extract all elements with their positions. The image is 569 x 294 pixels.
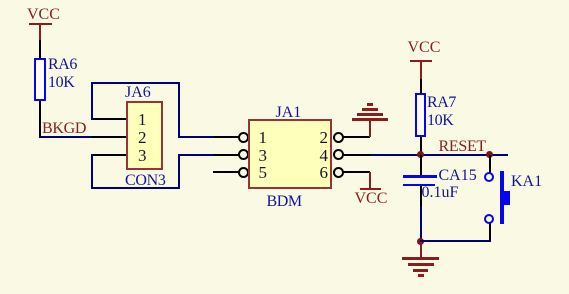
wire CA15 to ground node — [420, 206, 422, 242]
label JA6 — [125, 85, 151, 101]
pin number 1 (JA6) — [138, 111, 147, 128]
pin stub JA1 pin2 — [343, 136, 370, 138]
wire bottom horizontal to KA1 — [420, 240, 491, 242]
pin stub JA1 pin6 — [343, 171, 370, 173]
wire CA15 lower pin — [420, 186, 422, 206]
pin number 2 (JA1) — [320, 129, 329, 146]
pin number 5 (JA1) — [259, 164, 268, 181]
wire loop right vertical up — [178, 154, 180, 190]
label 10K — [48, 75, 74, 91]
wire RESET to CA15 — [420, 155, 422, 176]
pin number 1 (JA1) — [259, 129, 268, 146]
ground symbol (earth, bottom) — [420, 242, 422, 258]
pin number 6 (JA1) — [320, 164, 329, 181]
power symbol VCC (left) — [27, 7, 60, 23]
wire KA1 bottom — [489, 223, 491, 241]
wire loop top horizontal — [91, 82, 180, 84]
pin stub JA1 pin1 — [214, 136, 239, 138]
connector JA6 — [126, 101, 163, 170]
pin stub JA6 pin2 — [92, 136, 127, 138]
net label BKGD — [42, 121, 86, 137]
capacitor CA15 — [403, 175, 437, 178]
net label RESET — [439, 139, 486, 155]
pin circle JA1 pin5 — [238, 167, 249, 178]
pin stub JA1 pin4 — [343, 154, 372, 156]
pin number 3 (JA6) — [138, 147, 147, 164]
wire JA6 pin1 loop up — [91, 83, 93, 120]
wire VCC to RA7 — [420, 79, 422, 93]
pin stub JA6 pin1 — [92, 118, 127, 120]
junction ground node — [417, 238, 424, 245]
pin number 3 (JA1) — [259, 147, 268, 164]
pin circle JA1 pin4 — [333, 149, 344, 160]
resistor RA7 — [415, 93, 426, 137]
connector JA1 (BDM header) — [248, 119, 332, 189]
wire RA6 to BKGD node — [39, 101, 41, 137]
switch KA1 (push button) — [484, 172, 494, 182]
pin circle JA1 pin1 — [238, 132, 249, 143]
wire VCC to RA6 — [39, 40, 41, 58]
pin stub JA1 pin3 — [214, 154, 239, 156]
pin stub JA6 pin3 — [92, 154, 127, 156]
wire loop bottom horizontal — [91, 187, 180, 189]
wire RA7 to RESET node — [420, 137, 422, 155]
power symbol VCC (right) — [408, 40, 441, 56]
label BDM — [267, 194, 302, 210]
pin circle JA1 pin6 — [333, 167, 344, 178]
pin circle JA1 pin2 — [333, 132, 344, 143]
label CON3 — [125, 173, 166, 189]
wire to JA1 pin3 — [178, 154, 215, 156]
wire JA6 pin3 loop down — [91, 154, 93, 190]
pin circle JA1 pin3 — [238, 149, 249, 160]
pin number 4 (JA1) — [320, 147, 329, 164]
wire to JA1 pin1 — [178, 136, 215, 138]
wire BKGD horizontal — [39, 136, 93, 138]
pin number 2 (JA6) — [138, 129, 147, 146]
label RA7 — [427, 95, 456, 111]
junction RESET/RA7 — [417, 151, 424, 158]
label RA6 — [48, 57, 77, 73]
junction RESET/KA1 — [486, 151, 493, 158]
wire RESET to KA1 top — [489, 155, 491, 173]
pin stub JA1 pin5 — [213, 171, 239, 173]
ground symbol (earth, at JA1 pin2) — [369, 120, 371, 137]
label 0.1uF — [422, 185, 459, 201]
wire RESET horizontal — [371, 154, 508, 156]
label KA1 — [511, 174, 542, 190]
label JA1 — [276, 105, 302, 121]
label 10K — [427, 113, 453, 129]
resistor RA6 — [34, 58, 46, 101]
power symbol VCC (at JA1 pin6) — [369, 172, 371, 188]
wire loop right vertical down — [178, 82, 180, 138]
label CA15 — [439, 168, 477, 184]
